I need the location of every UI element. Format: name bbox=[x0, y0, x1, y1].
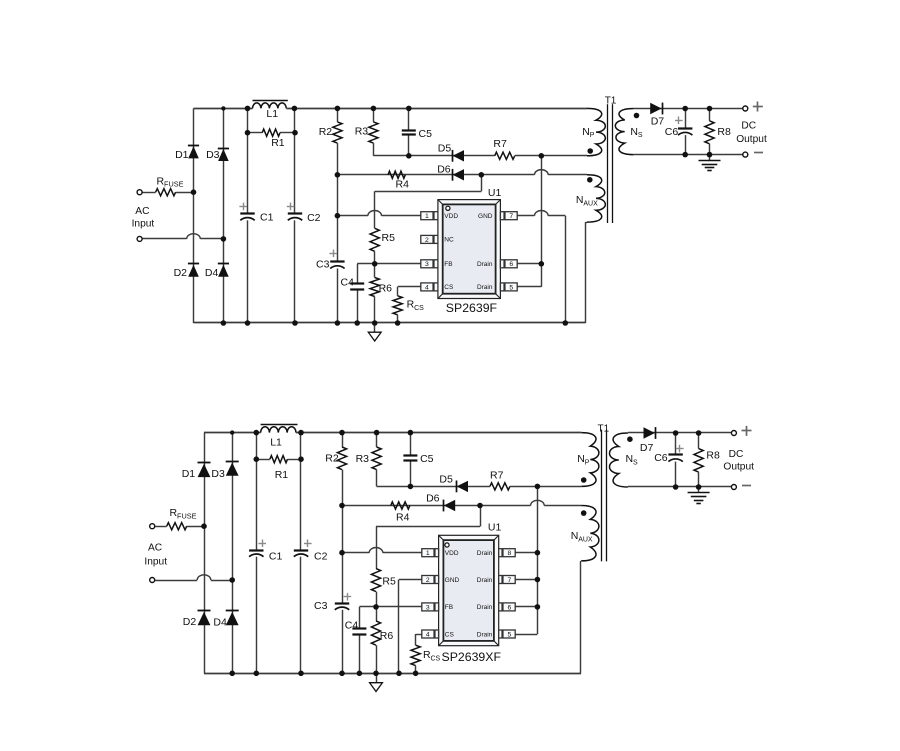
svg-text:1: 1 bbox=[425, 213, 429, 220]
svg-text:C1: C1 bbox=[269, 550, 283, 562]
svg-text:CS: CS bbox=[431, 655, 441, 662]
svg-text:R1: R1 bbox=[275, 469, 289, 481]
svg-text:VDD: VDD bbox=[444, 213, 458, 220]
svg-text:NC: NC bbox=[444, 237, 454, 244]
svg-text:C1: C1 bbox=[260, 212, 274, 224]
svg-text:R8: R8 bbox=[717, 126, 731, 138]
svg-text:R6: R6 bbox=[379, 283, 393, 295]
svg-text:N: N bbox=[630, 126, 638, 138]
svg-text:D6: D6 bbox=[437, 164, 451, 176]
svg-text:D5: D5 bbox=[439, 474, 453, 486]
svg-text:6: 6 bbox=[508, 604, 512, 611]
svg-text:5: 5 bbox=[508, 631, 512, 638]
svg-text:R1: R1 bbox=[271, 137, 285, 149]
svg-text:D1: D1 bbox=[175, 149, 189, 161]
svg-text:Drain: Drain bbox=[477, 284, 493, 291]
svg-text:CS: CS bbox=[444, 284, 454, 291]
svg-text:C4: C4 bbox=[341, 276, 355, 288]
svg-text:R7: R7 bbox=[490, 470, 504, 482]
svg-text:C6: C6 bbox=[665, 126, 679, 138]
svg-text:DC: DC bbox=[741, 120, 756, 131]
svg-text:GND: GND bbox=[478, 213, 493, 220]
svg-text:P: P bbox=[585, 460, 590, 467]
svg-text:D3: D3 bbox=[211, 468, 225, 480]
svg-text:R4: R4 bbox=[396, 179, 410, 191]
svg-text:Drain: Drain bbox=[477, 604, 493, 611]
svg-text:R3: R3 bbox=[356, 453, 370, 465]
svg-text:C3: C3 bbox=[316, 259, 330, 271]
svg-text:1: 1 bbox=[426, 550, 430, 557]
svg-text:P: P bbox=[590, 132, 595, 139]
svg-text:AC: AC bbox=[148, 543, 162, 554]
svg-text:AC: AC bbox=[135, 206, 149, 217]
svg-text:Output: Output bbox=[736, 134, 767, 145]
svg-text:S: S bbox=[633, 460, 638, 467]
svg-text:R7: R7 bbox=[493, 138, 507, 150]
svg-text:D3: D3 bbox=[206, 149, 220, 161]
svg-text:N: N bbox=[582, 126, 590, 138]
svg-text:D6: D6 bbox=[426, 492, 440, 504]
svg-text:R6: R6 bbox=[380, 630, 394, 642]
svg-text:AUX: AUX bbox=[578, 537, 593, 544]
svg-text:L1: L1 bbox=[270, 436, 282, 448]
svg-text:Drain: Drain bbox=[477, 577, 493, 584]
svg-text:VDD: VDD bbox=[445, 550, 459, 557]
svg-text:C6: C6 bbox=[654, 452, 668, 464]
svg-text:S: S bbox=[638, 132, 643, 139]
svg-text:N: N bbox=[577, 453, 585, 465]
svg-text:D7: D7 bbox=[651, 116, 665, 128]
svg-text:CS: CS bbox=[445, 631, 455, 638]
svg-text:6: 6 bbox=[509, 261, 513, 268]
svg-text:3: 3 bbox=[425, 261, 429, 268]
svg-text:Output: Output bbox=[723, 461, 754, 472]
svg-text:SP2639XF: SP2639XF bbox=[442, 650, 502, 664]
svg-text:3: 3 bbox=[426, 604, 430, 611]
svg-text:D4: D4 bbox=[213, 616, 227, 628]
svg-text:N: N bbox=[576, 194, 584, 206]
svg-text:8: 8 bbox=[508, 550, 512, 557]
svg-text:FB: FB bbox=[444, 261, 452, 268]
svg-text:FUSE: FUSE bbox=[177, 511, 197, 520]
svg-text:D7: D7 bbox=[640, 442, 654, 454]
svg-text:R2: R2 bbox=[325, 452, 339, 464]
svg-text:2: 2 bbox=[425, 237, 429, 244]
svg-text:CS: CS bbox=[414, 305, 424, 312]
svg-text:4: 4 bbox=[425, 284, 429, 291]
svg-text:Input: Input bbox=[132, 218, 155, 229]
svg-text:R2: R2 bbox=[319, 126, 333, 138]
svg-text:R3: R3 bbox=[355, 125, 369, 137]
svg-text:DC: DC bbox=[729, 449, 744, 460]
svg-text:N: N bbox=[571, 530, 579, 542]
svg-text:FUSE: FUSE bbox=[164, 180, 184, 189]
svg-text:7: 7 bbox=[508, 577, 512, 584]
svg-text:U1: U1 bbox=[488, 521, 502, 533]
svg-text:T1: T1 bbox=[598, 424, 610, 435]
svg-text:SP2639F: SP2639F bbox=[446, 301, 498, 315]
svg-text:C3: C3 bbox=[314, 600, 328, 612]
svg-text:Drain: Drain bbox=[477, 631, 493, 638]
svg-text:FB: FB bbox=[445, 604, 453, 611]
svg-text:Drain: Drain bbox=[477, 550, 493, 557]
svg-text:D4: D4 bbox=[205, 267, 219, 279]
svg-text:C2: C2 bbox=[307, 212, 321, 224]
svg-text:D2: D2 bbox=[183, 616, 197, 628]
svg-text:N: N bbox=[626, 453, 634, 465]
svg-text:AUX: AUX bbox=[583, 201, 598, 208]
svg-text:R8: R8 bbox=[706, 450, 720, 462]
svg-text:Drain: Drain bbox=[477, 261, 493, 268]
svg-text:D1: D1 bbox=[182, 468, 196, 480]
svg-text:D5: D5 bbox=[438, 142, 452, 154]
svg-text:C2: C2 bbox=[314, 550, 328, 562]
svg-text:R5: R5 bbox=[382, 576, 396, 588]
svg-text:7: 7 bbox=[509, 213, 513, 220]
svg-text:4: 4 bbox=[426, 631, 430, 638]
svg-text:Input: Input bbox=[144, 557, 167, 568]
svg-text:C4: C4 bbox=[345, 620, 359, 632]
svg-text:R5: R5 bbox=[382, 232, 396, 244]
svg-text:5: 5 bbox=[509, 284, 513, 291]
svg-text:U1: U1 bbox=[488, 187, 502, 199]
svg-text:R4: R4 bbox=[396, 512, 410, 524]
svg-text:C5: C5 bbox=[420, 453, 434, 465]
svg-text:D2: D2 bbox=[174, 267, 188, 279]
svg-text:L1: L1 bbox=[266, 108, 278, 120]
svg-text:C5: C5 bbox=[419, 128, 433, 140]
svg-text:2: 2 bbox=[426, 577, 430, 584]
svg-text:T1: T1 bbox=[605, 96, 617, 107]
svg-text:GND: GND bbox=[445, 577, 460, 584]
